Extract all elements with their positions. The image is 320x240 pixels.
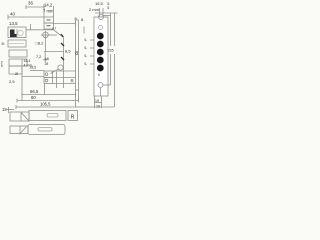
latch bolt head — [10, 112, 29, 121]
svg-text:16,4: 16,4 — [24, 59, 31, 63]
svg-text:19: 19 — [95, 99, 99, 103]
hole spacing tick 4 — [90, 63, 94, 65]
line y70.5 — [30, 70, 44, 72]
svg-text:6,: 6, — [85, 62, 88, 66]
svg-text:28: 28 — [45, 62, 49, 66]
svg-text:□8,2: □8,2 — [36, 40, 45, 45]
right dim vertical outer — [114, 13, 116, 107]
svg-text:40: 40 — [10, 12, 15, 17]
top screw hole — [99, 15, 104, 20]
cylinder leader diagonal — [51, 69, 59, 74]
bracket line to faceplate bottom — [53, 83, 76, 85]
internal vertical dimension — [63, 38, 65, 89]
right dim vertical inner — [110, 13, 112, 85]
extension vertical x44.5 — [44, 84, 46, 95]
cylinder circle — [58, 65, 63, 70]
tick for 19 — [8, 107, 10, 113]
svg-text:5: 5 — [1, 64, 3, 68]
svg-text:8: 8 — [75, 51, 78, 57]
bottom hole centerline — [100, 88, 102, 96]
follower circle — [43, 32, 49, 38]
svg-text:5: 5 — [107, 6, 109, 10]
hole spacing tick 1 — [90, 39, 94, 41]
left column box E — [9, 66, 22, 74]
latch bolt dark head — [10, 30, 17, 38]
dimension 105.5 line — [16, 105, 115, 109]
hole spacing tick 3 — [90, 55, 94, 57]
svg-text:6,: 6, — [85, 38, 88, 42]
small hole below — [99, 26, 103, 30]
svg-text:105,5: 105,5 — [40, 102, 51, 107]
svg-text:13,5: 13,5 — [9, 21, 18, 26]
svg-text:R: R — [71, 115, 75, 121]
left column box D — [9, 59, 27, 66]
bottom screw hole — [98, 83, 103, 88]
dimension 66.5 line — [22, 93, 76, 97]
faceplate side view top cap — [76, 19, 79, 21]
bolt hole 2 — [97, 41, 104, 48]
deadbolt bevel — [20, 127, 27, 134]
faceplate width dim line — [95, 8, 118, 17]
under-strip tick line — [95, 102, 102, 104]
line below follower — [44, 51, 64, 53]
faceplate bottom tick centre — [101, 96, 103, 108]
dimension 80 line — [17, 99, 79, 103]
bracket screw lower — [45, 79, 48, 82]
faceplate side view left edge — [75, 20, 77, 107]
svg-text:80: 80 — [31, 95, 36, 100]
svg-text:2,5: 2,5 — [9, 79, 15, 84]
leader vertical x84 — [83, 27, 85, 34]
dimension line y23.5 to faceplate — [54, 22, 76, 26]
follower centerline vertical — [45, 31, 47, 52]
top tab box lower — [44, 23, 54, 29]
bracket box upper — [44, 71, 53, 78]
svg-text:7 mm: 7 mm — [43, 9, 54, 14]
dimension 36 top-left line — [26, 5, 44, 9]
faceplate bottom tick left — [94, 96, 96, 108]
svg-text:2 mm: 2 mm — [89, 7, 100, 12]
svg-text:19: 19 — [2, 107, 7, 112]
bracket line to faceplate mid — [53, 77, 76, 79]
deadbolt divider — [19, 126, 21, 135]
faceplate side view right edge — [78, 20, 80, 101]
deadbolt head — [10, 126, 28, 134]
svg-text:235: 235 — [108, 49, 114, 53]
svg-text:16: 16 — [96, 105, 100, 109]
right dim leader top — [104, 15, 111, 17]
deadbolt tail — [28, 125, 65, 135]
svg-text:0,7: 0,7 — [52, 26, 57, 30]
bolt hole 4 — [97, 57, 104, 64]
svg-text:8:: 8: — [2, 41, 5, 46]
svg-text:≠8: ≠8 — [45, 57, 49, 61]
latch roller detail — [18, 30, 23, 35]
left column box A (latch pocket) — [8, 27, 26, 38]
bolt hole 1 — [97, 33, 104, 40]
latch bolt divider — [20, 112, 22, 121]
svg-text:6,: 6, — [85, 54, 88, 58]
leader diagonal top — [54, 30, 64, 38]
svg-text:8,5: 8,5 — [65, 48, 71, 53]
bracket box lower — [44, 78, 53, 84]
follower centerline horizontal — [41, 34, 57, 36]
bolt hole 5 — [97, 65, 104, 72]
svg-text:14,2: 14,2 — [44, 3, 53, 8]
faceplate side view bottom cap — [76, 89, 79, 91]
hole spacing tick 2 — [90, 47, 94, 49]
latch bolt tail — [29, 111, 66, 121]
svg-text:R: R — [71, 79, 74, 84]
svg-text:36: 36 — [28, 1, 33, 6]
right dim leader bottom — [104, 84, 111, 86]
internal dim arrow bottom — [61, 57, 64, 60]
bolt hole 3 — [97, 49, 104, 56]
left column box B — [8, 40, 26, 47]
latch bolt bevel — [21, 112, 29, 120]
deadbolt slot — [38, 128, 52, 132]
svg-text:6: 6 — [98, 73, 100, 77]
bracket line to faceplate top — [53, 70, 76, 72]
section marker box — [68, 111, 78, 121]
top tab box upper — [44, 17, 54, 23]
svg-text:66,5: 66,5 — [30, 89, 39, 94]
left column box C — [9, 50, 27, 57]
svg-text:6,: 6, — [85, 46, 88, 50]
dimension 40 line — [8, 4, 44, 20]
svg-text:7,2: 7,2 — [36, 55, 41, 59]
faceplate front view outline — [94, 17, 108, 96]
case top-left extension tick — [30, 24, 32, 30]
svg-text:16,5: 16,5 — [95, 1, 104, 6]
internal dim arrow top — [61, 43, 64, 46]
latch tail slot — [47, 114, 58, 118]
short horizontal y76.5 — [22, 76, 44, 78]
extension vertical x22 — [21, 66, 23, 101]
box D divider — [21, 59, 23, 66]
bracket screw upper — [45, 73, 48, 76]
svg-text:28,5: 28,5 — [30, 66, 37, 70]
case top edge segment — [26, 29, 54, 31]
top tab marks — [47, 20, 51, 26]
